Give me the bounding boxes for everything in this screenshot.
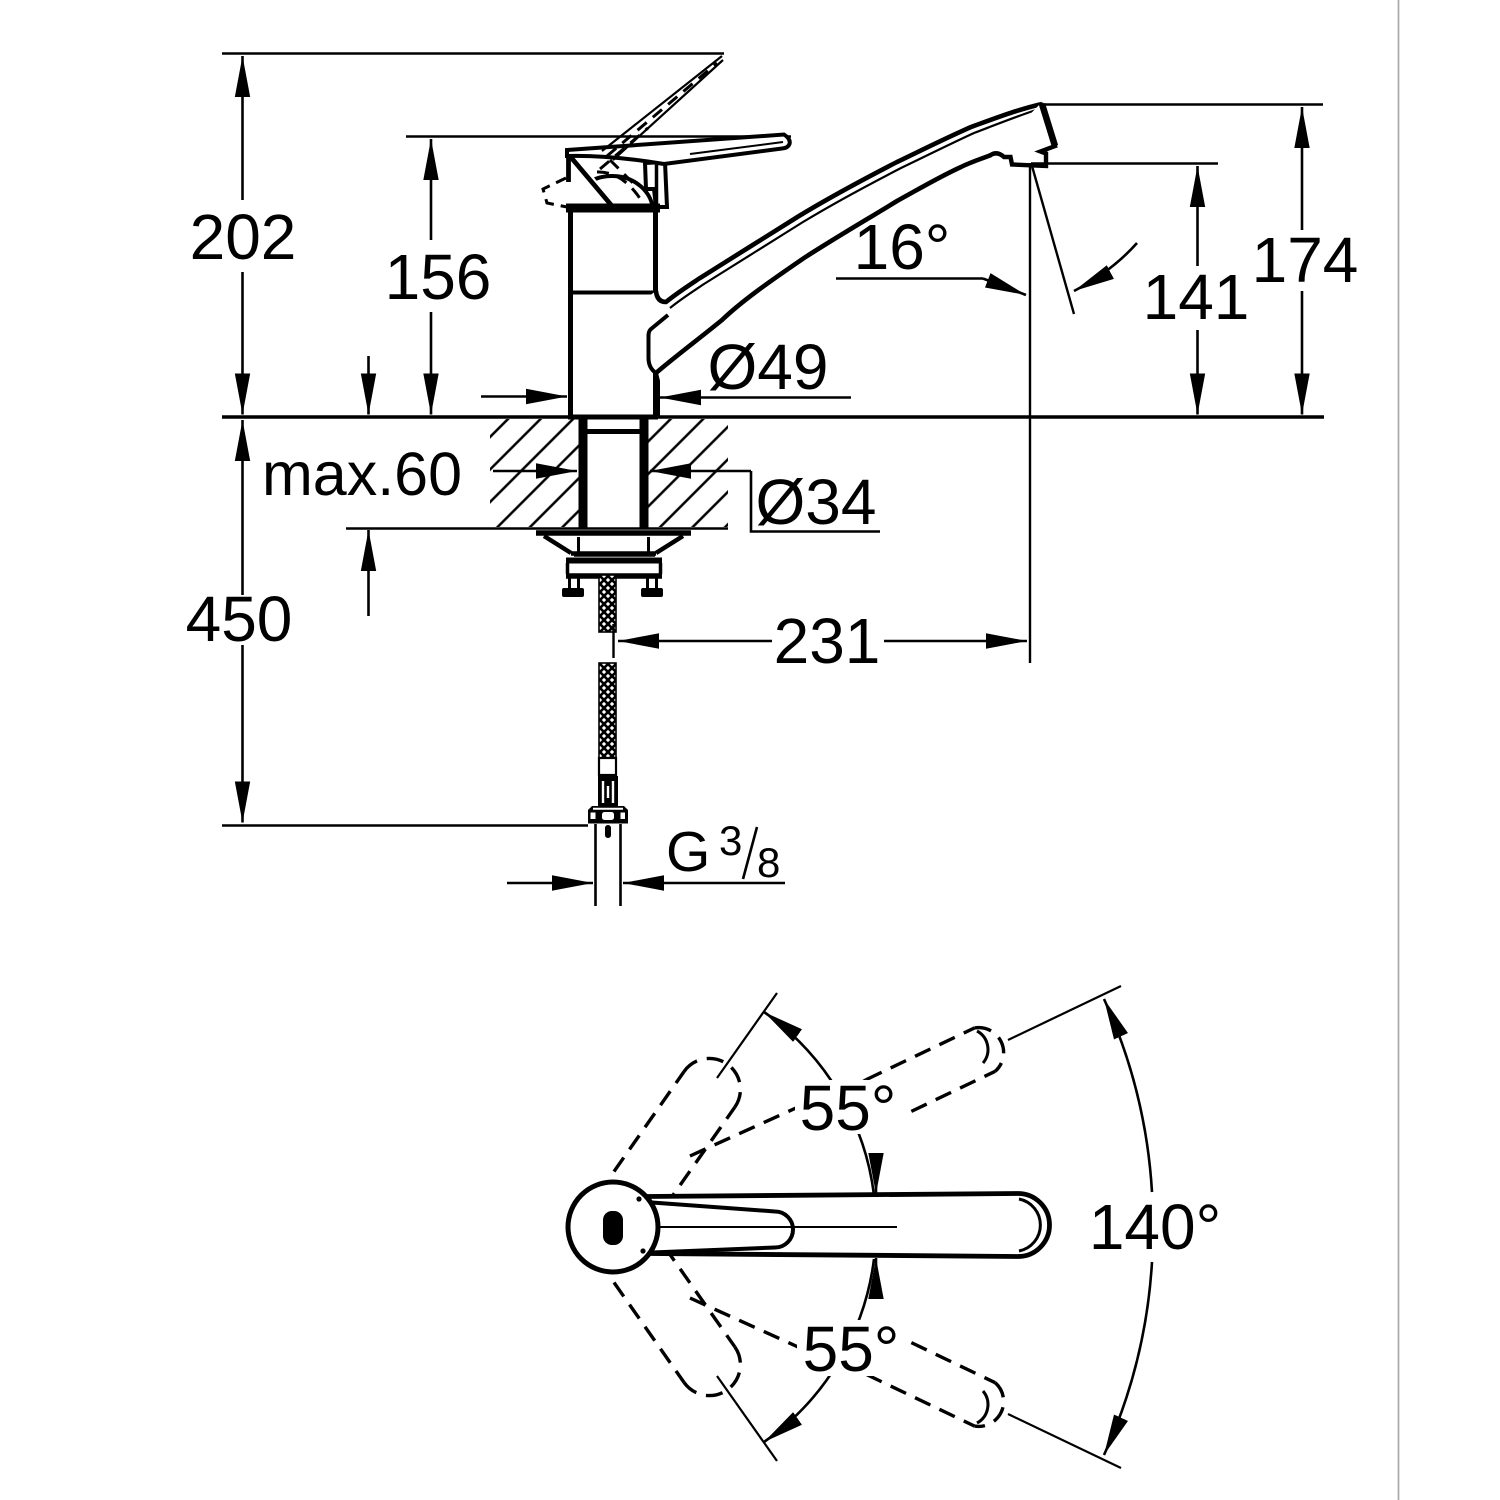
dimension Ø49 left arrow [481,395,567,398]
svg-text:Ø34: Ø34 [756,466,877,538]
55° arc top with arrow [764,1012,874,1195]
spout head and aerator [990,103,1055,166]
svg-text:140°: 140° [1089,1191,1221,1263]
faucet body [571,209,656,417]
hidden dome edge (dashed) [597,172,641,200]
extension line: hose end (450 bottom reference) [222,824,588,827]
hose crimp fitting [598,776,618,806]
countertop slab hatched, right of hole [647,419,728,527]
faucet shank left wall [579,417,588,529]
spout outlet drop line [1029,163,1031,663]
svg-text:8: 8 [757,839,780,886]
lock nut stack [574,554,655,557]
inner cap arc of lower-right grip [977,1391,988,1423]
svg-text:3: 3 [719,817,742,864]
16° tilted angle line [1032,166,1074,314]
mounting flange cone [544,536,683,554]
braided hose upper segment [599,575,616,632]
svg-text:G: G [666,820,710,884]
cartridge dome under handle [571,176,653,212]
countertop line [222,415,1324,419]
dimension 231 right arrow [884,640,1027,643]
page edge gray line [1398,0,1400,1500]
extension line: water outlet height (141 reference) [1031,162,1218,164]
spout upper inner line [670,110,1036,308]
lever centerline [633,1226,897,1228]
svg-text:156: 156 [385,241,492,313]
dimension G3/8 left arrow [507,882,593,885]
dimension 202 vertical line with arrows [241,56,244,200]
mounting screw right [646,578,649,589]
svg-text:Ø49: Ø49 [708,331,829,403]
svg-text:55°: 55° [803,1313,900,1385]
dimension 231 tick-side arrow [618,640,772,643]
mounting screw left [568,578,571,589]
hidden handle edge on wedge (dashed) [610,160,638,188]
body divider line [570,291,656,295]
dashed connector lower [690,1298,862,1376]
extension line: spout top height (174 reference) [1043,103,1323,105]
rotated lever +55° (dashed stadium) [614,1072,684,1172]
spout root bump [649,315,669,416]
140° arc with arrows [1104,999,1152,1192]
handle neck [645,162,667,207]
braided hose lower segment [599,663,616,758]
svg-text:174: 174 [1252,224,1359,296]
faucet shank right wall [640,417,649,529]
blade underside inner line [690,142,783,154]
extension line: top of lifted handle (202 reference) [222,52,724,55]
lifted grip lower-right (dashed stadium) [866,1374,974,1426]
dashed connector upper [690,1078,862,1156]
slab bottom line [346,527,728,530]
label 55° bottom [797,1320,907,1376]
inner cap arc of upper-right grip [977,1031,988,1063]
hose end inside tube [605,825,611,838]
handle blade [567,135,790,165]
supply tube [594,824,597,906]
svg-text:141: 141 [1143,261,1250,333]
pivot circle [568,1182,658,1272]
dimension 156 vertical line with arrows [430,139,433,240]
label 55° top [795,1080,905,1134]
solid lever top view [616,1194,1050,1257]
rotated lever -55° (dashed stadium) [614,1283,684,1383]
spout upper edge [656,104,1042,302]
16° curved arrow [1074,243,1137,291]
dimension max.60 upper arrow (points down to countertop) [367,356,370,415]
body top cap [566,204,660,213]
dimension 174 with arrows [1301,107,1304,230]
hose ferrule [599,758,616,775]
faucet base bottom line above shank [579,429,648,434]
lever hole [603,1211,623,1245]
hose edge tick at 231 dimension [612,624,614,658]
lifted grip upper-right (dashed stadium) [866,1028,974,1080]
spout white fill [649,104,1056,373]
svg-text:55°: 55° [800,1072,897,1144]
extension line -55° [717,1376,777,1461]
hex nut [588,806,628,824]
svg-text:450: 450 [186,583,293,655]
countertop slab hatched, left of hole [490,419,579,527]
extension line +55° [717,993,777,1078]
dimension Ø49 right arrow [660,396,851,399]
spout lower edge [656,155,991,373]
dimension Ø34 left arrow [493,470,577,473]
lifted handle outline (thin) [602,56,723,160]
mounting flange top plate [536,530,691,536]
svg-text:16°: 16° [854,211,951,283]
dimension 450 vertical line with arrows [241,420,244,595]
label 140° [1086,1196,1226,1256]
dimension 141 with arrows [1196,166,1199,266]
svg-text:202: 202 [190,201,297,273]
svg-text:231: 231 [774,605,881,677]
extension line lower-right grip [1008,1414,1121,1468]
dimension G3/8 right arrow [623,882,785,885]
extension line: top of handle at rest (156 reference) [406,135,791,138]
lifted handle back end (dashed) [543,178,567,207]
extension line upper-right grip [1008,986,1121,1040]
dimension max.60 lower arrow (points up to slab bottom) [367,530,370,616]
lever cap inner arc [1019,1199,1040,1251]
lifted handle hidden lines (dashed) [607,63,717,156]
dimension Ø34 right arrow and leader [650,470,751,473]
svg-text:max.60: max.60 [262,440,462,508]
16° leader line with arrow [836,277,983,280]
55° arc bottom with arrow [764,1259,874,1442]
pivot dots [636,1196,641,1201]
lever slot [640,1203,793,1253]
handle base wedge [566,148,616,208]
spout end face [1042,104,1055,146]
